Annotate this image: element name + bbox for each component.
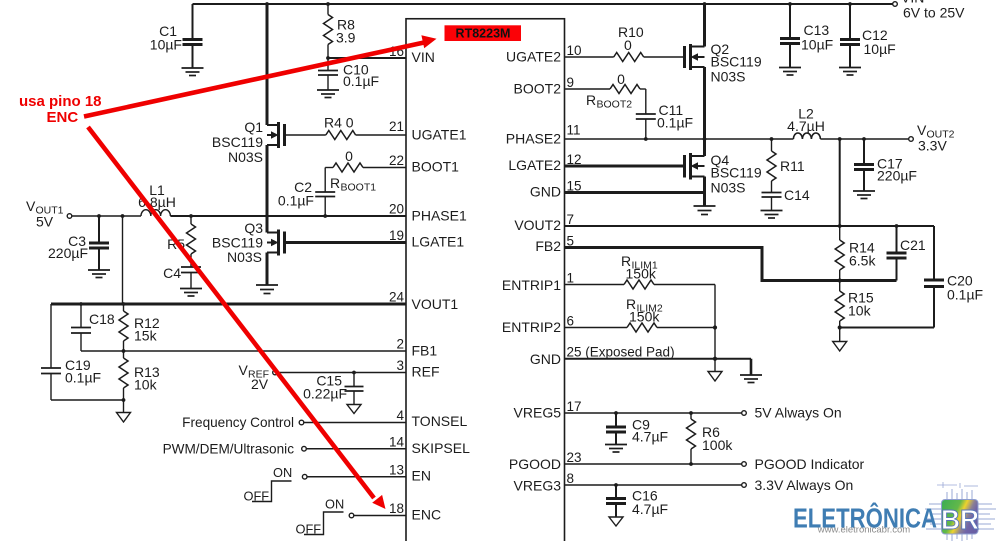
node R14 top junction [838, 224, 842, 228]
svg-text:VREG5: VREG5 [514, 405, 562, 421]
wire ENC pin18 [354, 515, 406, 517]
wire VOUT1 feedback tap vertical [122, 216, 124, 304]
node 5V terminal [742, 411, 747, 416]
node C11/PHASE2 junction [644, 137, 648, 141]
svg-text:VOUT1: VOUT1 [412, 296, 459, 312]
wire LGATE2 pin12 [565, 165, 685, 168]
svg-text:PHASE1: PHASE1 [412, 208, 467, 224]
svg-text:5V: 5V [36, 214, 54, 230]
svg-text:10µF: 10µF [801, 37, 833, 53]
resistor R4 0 [285, 115, 407, 140]
svg-text:4.7µH: 4.7µH [787, 118, 825, 134]
logo ELETRONICA BR [793, 482, 996, 541]
node R5 junction [189, 214, 193, 218]
wire LGATE1 pin19 [285, 241, 407, 244]
wire VOUT1 to L1 [72, 215, 141, 217]
svg-text:VOUT2: VOUT2 [514, 217, 561, 233]
label VOUT1 5V [26, 198, 64, 230]
svg-text:150k: 150k [626, 266, 657, 282]
svg-text:Frequency Control: Frequency Control [182, 415, 294, 430]
svg-text:17: 17 [567, 399, 582, 414]
resistor R6 100k [687, 413, 734, 464]
svg-text:6V to 25V: 6V to 25V [903, 5, 965, 21]
node EN terminal [302, 474, 307, 479]
wire ILIM vertical [714, 285, 716, 359]
node C21 top junction [895, 224, 899, 228]
svg-text:C21: C21 [900, 237, 926, 253]
svg-text:BR: BR [941, 504, 979, 535]
node rail/Q1 junction [265, 2, 269, 6]
svg-text:PGOOD Indicator: PGOOD Indicator [755, 456, 865, 472]
svg-text:0.1µF: 0.1µF [657, 115, 693, 131]
ground C12 [839, 68, 861, 76]
node C3 junction [97, 214, 101, 218]
capacitor C21 [887, 226, 926, 281]
svg-text:20: 20 [389, 202, 404, 217]
node PGOOD terminal [742, 462, 747, 467]
ground C14 [761, 211, 783, 219]
resistor R5 [167, 216, 195, 267]
IC right pin numbers [567, 43, 675, 486]
svg-text:150k: 150k [629, 309, 660, 325]
annotation red arrow to pin 18 ENC [88, 127, 386, 509]
switch ENC ON/OFF [304, 512, 344, 535]
svg-text:18: 18 [389, 501, 404, 516]
svg-text:ENTRIP1: ENTRIP1 [502, 277, 561, 293]
resistor RBOOT2 0 [565, 71, 646, 111]
svg-text:0.1µF: 0.1µF [65, 370, 101, 386]
resistor R12 15k [119, 304, 160, 351]
node bottom junction [122, 398, 126, 402]
node C17 junction [862, 137, 866, 141]
svg-text:TONSEL: TONSEL [412, 413, 468, 429]
annotation red arrow to RT8223M [84, 35, 437, 116]
svg-text:LGATE2: LGATE2 [508, 157, 561, 173]
svg-text:6: 6 [567, 314, 575, 329]
svg-text:220µF: 220µF [48, 245, 88, 261]
svg-text:N03S: N03S [711, 180, 746, 196]
node R15 bottom junction [838, 325, 842, 329]
capacitor C2 [278, 168, 335, 217]
RT8223M red label box [445, 25, 522, 41]
node C2/PHASE1 junction [323, 214, 327, 218]
svg-text:0.1µF: 0.1µF [343, 73, 379, 89]
wire PGOOD pin23 [565, 463, 742, 465]
svg-text:10: 10 [567, 43, 582, 58]
svg-text:V: V [239, 362, 249, 378]
node rail/R8 junction [326, 2, 330, 6]
svg-text:N03S: N03S [227, 249, 262, 265]
capacitor C14 [762, 187, 810, 210]
svg-text:ENTRIP2: ENTRIP2 [502, 319, 561, 335]
svg-text:4: 4 [396, 408, 404, 423]
svg-text:2: 2 [396, 337, 404, 352]
ground Q4 [694, 206, 716, 215]
label VOUT2 3.3V [917, 122, 955, 154]
wire Q3 source to ground [266, 253, 269, 285]
transistor Q1 BSC119 N03S [212, 119, 285, 165]
node 3.3V terminal [742, 483, 747, 488]
label VREF 2V [239, 362, 270, 392]
svg-text:UGATE2: UGATE2 [506, 49, 561, 65]
svg-text:4.7µF: 4.7µF [632, 501, 668, 517]
wire FB2 pin5 net [565, 248, 897, 281]
svg-text:15k: 15k [134, 328, 158, 344]
node FB tap junction [121, 214, 125, 218]
inductor L2 4.7uH [787, 106, 825, 140]
wire L2 to VOUT2 terminal [820, 138, 908, 140]
svg-text:OFF: OFF [244, 489, 270, 504]
wire GND pin15 [565, 191, 705, 194]
ground C1 [182, 68, 204, 76]
IC right pin names [502, 49, 561, 494]
svg-text:0: 0 [345, 148, 353, 164]
svg-text:VIN: VIN [412, 49, 435, 65]
svg-text:220µF: 220µF [877, 168, 917, 184]
capacitor C1 [150, 4, 203, 68]
IC left pin names [412, 49, 471, 523]
wire FB1 pin2 [81, 350, 406, 352]
node R11 junction [770, 137, 774, 141]
svg-text:100k: 100k [702, 437, 733, 453]
wire VOUT2 to divider vertical [839, 139, 841, 226]
node rail/C13 junction [788, 2, 792, 6]
wire C19 bottom to R13 bottom [51, 399, 124, 401]
node C15 junction [352, 371, 356, 375]
node R6/PGOOD junction [689, 462, 693, 466]
svg-text:R4 0: R4 0 [324, 115, 354, 131]
wire Q2 drain from rail [703, 4, 706, 47]
svg-text:14: 14 [389, 434, 405, 449]
svg-text:ENC: ENC [412, 507, 442, 523]
node rail/Q2 junction [703, 2, 707, 6]
svg-text:C4: C4 [163, 265, 181, 281]
node R6 junction [689, 411, 693, 415]
svg-text:BSC119: BSC119 [711, 165, 762, 181]
transistor Q2 BSC119 N03S [685, 41, 762, 85]
ground C3 [88, 270, 110, 278]
node C18 top junction [79, 302, 83, 306]
svg-text:PGOOD: PGOOD [509, 456, 561, 472]
ground C17 [853, 191, 875, 199]
wire Q2 source to PHASE2 [703, 67, 706, 139]
svg-text:R: R [330, 175, 340, 191]
resistor R14 6.5k [835, 226, 876, 281]
capacitor C11 0.1uF [636, 89, 693, 139]
svg-text:N03S: N03S [711, 69, 746, 85]
svg-text:9: 9 [567, 75, 575, 90]
svg-text:SKIPSEL: SKIPSEL [412, 440, 471, 456]
wire VOUT1 pin24 [51, 303, 406, 306]
node R15 top junction [838, 278, 842, 282]
svg-text:C18: C18 [89, 311, 115, 327]
node rail/C12 junction [848, 2, 852, 6]
svg-text:www.eletronicabr.com: www.eletronicabr.com [817, 525, 910, 536]
svg-text:10k: 10k [134, 377, 158, 393]
wire Q4 source to ground [703, 177, 706, 206]
resistor R11 [767, 139, 805, 192]
svg-text:0.22µF: 0.22µF [303, 386, 347, 402]
svg-text:10µF: 10µF [150, 37, 182, 53]
node Q1/Q3 PHASE1 junction [265, 214, 269, 218]
svg-text:0.1µF: 0.1µF [278, 193, 314, 209]
node REF terminal [273, 370, 278, 375]
svg-text:GND: GND [530, 351, 561, 367]
svg-text:7: 7 [567, 212, 575, 227]
node R12 top junction [122, 302, 126, 306]
svg-text:24: 24 [389, 290, 405, 305]
wire PHASE1 to pin20 [170, 215, 406, 217]
svg-text:BSC119: BSC119 [212, 134, 263, 150]
ground C4 [180, 289, 202, 297]
wire GND pin25 [565, 358, 752, 360]
node PHASE2/Q4 junction [703, 137, 707, 141]
wire VREG5 pin17 [565, 412, 742, 414]
resistor R10 0 [565, 24, 686, 62]
svg-text:19: 19 [389, 228, 404, 243]
node GND25 junction [713, 357, 717, 361]
svg-text:VREG3: VREG3 [514, 478, 562, 494]
node ILIM junction [713, 325, 717, 329]
capacitor C3 [48, 216, 109, 270]
svg-text:V: V [917, 122, 927, 138]
resistor RILIM2 150k [565, 296, 716, 332]
svg-text:REF: REF [412, 364, 440, 380]
capacitor C18 [71, 304, 115, 351]
svg-text:BOOT2: BOOT2 [514, 81, 562, 97]
ground C10 [317, 90, 339, 98]
wire EN pin13 [307, 476, 406, 478]
node VOUT1 terminal [67, 214, 72, 219]
resistor RILIM1 150k [565, 253, 716, 289]
ground C13 [779, 68, 801, 76]
resistor RBOOT1 0 [325, 148, 406, 194]
node R12/R13 FB junction [122, 349, 126, 353]
ground triangle GND25 [708, 359, 722, 381]
svg-text:R: R [586, 92, 596, 108]
ground triangle C15 [347, 405, 361, 414]
svg-text:BOOT2: BOOT2 [597, 99, 633, 111]
capacitor C13 [780, 4, 833, 67]
wire VREG3 pin8 [565, 484, 742, 486]
svg-text:11: 11 [567, 123, 581, 138]
svg-text:0.1µF: 0.1µF [947, 287, 983, 303]
svg-text:10k: 10k [848, 303, 872, 319]
capacitor C15 0.22uF [303, 373, 363, 405]
svg-text:0: 0 [617, 71, 625, 87]
ground Q3 [256, 285, 278, 294]
capacitor C12 [840, 4, 896, 67]
svg-text:2V: 2V [251, 376, 269, 392]
svg-text:5V Always On: 5V Always On [755, 405, 842, 421]
svg-text:UGATE1: UGATE1 [412, 127, 467, 143]
svg-text:GND: GND [530, 184, 561, 200]
svg-text:C14: C14 [784, 187, 810, 203]
wire VOUT2 pin7 [565, 225, 935, 227]
svg-text:Q1: Q1 [244, 119, 263, 135]
node SKIPSEL terminal [302, 446, 307, 451]
svg-text:RT8223M: RT8223M [456, 26, 511, 40]
ground earth GND25 [740, 359, 762, 383]
svg-text:10µF: 10µF [864, 41, 896, 57]
node C9 junction [614, 411, 618, 415]
svg-text:FB2: FB2 [535, 238, 561, 254]
capacitor C17 220uF [854, 139, 917, 191]
svg-text:3.3V Always On: 3.3V Always On [755, 477, 854, 493]
transistor Q3 BSC119 N03S [212, 216, 285, 265]
ground triangle C16 [609, 517, 623, 526]
capacitor C4 [163, 265, 201, 288]
wire Q4 drain [703, 139, 706, 156]
ground triangle R15 [833, 328, 847, 352]
capacitor C16 4.7uF [606, 485, 668, 517]
svg-text:ENC: ENC [47, 109, 79, 126]
wire SKIPSEL pin14 [306, 448, 406, 450]
svg-text:22: 22 [389, 153, 404, 168]
capacitor C20 0.1uF [924, 226, 983, 328]
node VOUT2 branch junction [838, 137, 842, 141]
node ENC terminal [349, 513, 354, 518]
switch EN ON/OFF [252, 481, 292, 502]
wire top VIN rail [193, 3, 893, 5]
svg-text:EN: EN [412, 468, 431, 484]
svg-text:PHASE2: PHASE2 [506, 131, 561, 147]
svg-text:BOOT1: BOOT1 [412, 159, 460, 175]
wire TONSEL pin4 [304, 422, 406, 424]
capacitor C9 4.7uF [606, 413, 668, 445]
svg-text:BSC119: BSC119 [711, 54, 762, 70]
svg-text:23: 23 [567, 450, 582, 465]
ground triangle R13 [117, 400, 131, 422]
capacitor C10 [318, 58, 379, 90]
svg-text:21: 21 [389, 119, 404, 134]
svg-text:4.7µF: 4.7µF [632, 429, 668, 445]
svg-text:BOOT1: BOOT1 [341, 182, 377, 194]
node VIN terminal [893, 2, 898, 7]
svg-text:3: 3 [396, 358, 404, 373]
wire left branch down to C19 [50, 304, 52, 368]
svg-text:0: 0 [624, 37, 632, 53]
node C16 junction [614, 483, 618, 487]
svg-text:FB1: FB1 [412, 343, 438, 359]
wire R15 bottom to C20 [840, 327, 934, 329]
transistor Q4 BSC119 N03S [685, 152, 762, 196]
resistor R15 10k [835, 281, 874, 328]
svg-text:ON: ON [273, 465, 292, 480]
svg-text:1: 1 [567, 271, 575, 286]
svg-text:usa pino 18: usa pino 18 [19, 93, 102, 110]
svg-text:3.3V: 3.3V [918, 138, 947, 154]
IC left pin numbers [389, 44, 405, 516]
wire REF pin3 [277, 372, 406, 374]
svg-text:8: 8 [567, 471, 575, 486]
resistor R8 [324, 4, 356, 58]
svg-text:PWM/DEM/Ultrasonic: PWM/DEM/Ultrasonic [163, 442, 295, 457]
node R8/C10/VIN junction [326, 56, 330, 60]
svg-text:6.5k: 6.5k [849, 253, 876, 269]
svg-text:V: V [26, 198, 36, 214]
capacitor C19 [41, 357, 101, 400]
svg-text:R11: R11 [780, 158, 805, 174]
node VOUT2 terminal [909, 137, 914, 142]
svg-text:ON: ON [325, 497, 344, 512]
wire Q1 source to PHASE1 [266, 145, 269, 216]
svg-text:OFF: OFF [296, 522, 322, 537]
svg-text:N03S: N03S [228, 149, 263, 165]
wire VIN pin16 [328, 57, 406, 59]
node TONSEL terminal [299, 420, 304, 425]
svg-text:3.9: 3.9 [336, 30, 356, 46]
resistor R13 10k [119, 351, 160, 400]
svg-text:13: 13 [389, 462, 404, 477]
svg-text:25 (Exposed Pad): 25 (Exposed Pad) [567, 345, 675, 360]
svg-text:LGATE1: LGATE1 [412, 234, 465, 250]
IC U1 RT8223M box [406, 19, 565, 541]
wire Q1 drain from rail [266, 4, 269, 125]
inductor L1 6.8uH [138, 182, 176, 216]
annotation red text usa pino 18 ENC [19, 93, 102, 126]
wire PHASE2 pin11 [565, 138, 794, 140]
ground C9 [605, 445, 627, 453]
